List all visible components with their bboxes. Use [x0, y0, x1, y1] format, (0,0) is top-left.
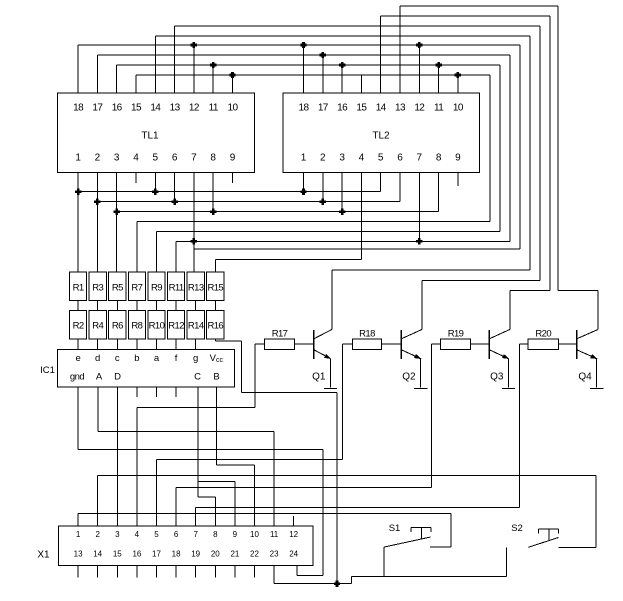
- TL2 pin 17 number: [318, 103, 329, 114]
- wire R5-R6: [116, 301, 118, 311]
- svg-text:R18: R18: [359, 329, 375, 340]
- svg-text:21: 21: [230, 550, 239, 559]
- switch S1: [384, 523, 451, 547]
- wire Q2 collector to bus540: [422, 280, 540, 282]
- stub TL1 pin4: [135, 173, 137, 183]
- TL1 pin 12 number: [189, 103, 200, 114]
- svg-text:c: c: [115, 353, 120, 364]
- svg-text:9: 9: [233, 530, 238, 539]
- svg-text:3: 3: [115, 530, 120, 539]
- wire R2 to IC1: [77, 339, 79, 350]
- svg-text:11: 11: [434, 103, 444, 114]
- net line2 wire: [97, 201, 400, 203]
- TL2 pin 13 number: [395, 103, 406, 114]
- svg-text:R4: R4: [92, 321, 103, 332]
- IC1 pin c label: [115, 353, 120, 364]
- wire TL1 pin16: [116, 65, 118, 93]
- svg-text:R19: R19: [448, 329, 464, 340]
- wire R3-R4: [97, 301, 99, 311]
- IC1 pin d label: [95, 353, 100, 364]
- X1 pin 6 number: [174, 530, 179, 539]
- wire R8 to IC1: [136, 339, 138, 350]
- wire Q2 collector: [421, 281, 423, 330]
- junction line3 TL1-3: [114, 209, 120, 215]
- TL2 pin 16 number: [337, 103, 348, 114]
- svg-text:b: b: [134, 353, 139, 364]
- wire R17 to base: [295, 343, 314, 345]
- wire R11-R12: [175, 301, 177, 311]
- TL2 pin 18 number: [299, 103, 310, 114]
- ground Q1 emitter: [324, 388, 337, 390]
- transistor Q1: [312, 330, 332, 383]
- stub X1 pin 22: [254, 566, 256, 578]
- bus wire x558: [557, 6, 559, 290]
- IC1 pin D label: [114, 372, 121, 383]
- wire TL1 pin1 to R1: [77, 173, 79, 272]
- net line8 wire: [215, 173, 361, 272]
- TL2 pin 14 number: [376, 103, 387, 114]
- junction line2 TL2-2: [320, 199, 326, 205]
- svg-text:24: 24: [289, 550, 298, 559]
- label TL2: [372, 131, 390, 142]
- net digit2 top wire: [175, 25, 540, 27]
- TL1 pin 5 number: [153, 153, 159, 164]
- svg-text:R8: R8: [131, 321, 142, 332]
- svg-text:2: 2: [95, 153, 101, 164]
- wire TL2 pin18: [303, 45, 305, 93]
- resistor R4: [89, 311, 106, 339]
- X1 pin 17 number: [152, 550, 161, 559]
- resistor R20: [528, 329, 559, 350]
- svg-text:8: 8: [436, 153, 442, 164]
- wire R7-R8: [136, 301, 138, 311]
- X1 pin 4 number: [135, 530, 140, 539]
- IC TL2: [283, 93, 480, 173]
- svg-text:8: 8: [210, 153, 216, 164]
- svg-text:1: 1: [301, 153, 307, 164]
- wire Q3 emitter: [508, 359, 510, 388]
- X1 pin 1 number: [76, 530, 81, 539]
- wire TL2 pin16: [341, 65, 343, 93]
- svg-text:12: 12: [289, 530, 298, 539]
- svg-text:16: 16: [132, 550, 141, 559]
- junction TL2-17: [320, 52, 326, 58]
- svg-text:12: 12: [414, 103, 425, 114]
- wire TL1 pin6: [174, 173, 176, 202]
- svg-text:16: 16: [112, 103, 123, 114]
- wire X1-1 riser: [77, 514, 79, 527]
- svg-text:6: 6: [174, 530, 179, 539]
- bus wire x550: [549, 16, 551, 290]
- net digit1 top wire: [155, 35, 530, 37]
- svg-text:R17: R17: [272, 329, 288, 340]
- wire X1 pin23 to rail: [273, 566, 275, 584]
- svg-text:R12: R12: [168, 321, 184, 332]
- TL2 pin 5 number: [378, 153, 384, 164]
- ground Q4 emitter: [590, 388, 603, 390]
- junction line1 TL1-5: [152, 189, 158, 195]
- svg-text:13: 13: [395, 103, 406, 114]
- svg-text:d: d: [95, 353, 100, 364]
- TL2 pin 15 number: [356, 103, 367, 114]
- junction TL1-11: [210, 62, 216, 68]
- X1 pin 3 number: [115, 530, 120, 539]
- wire R12 to IC1: [175, 339, 177, 350]
- svg-text:20: 20: [211, 550, 220, 559]
- svg-text:g: g: [193, 353, 198, 364]
- svg-text:R20: R20: [535, 329, 551, 340]
- X1 pin 20 number: [211, 550, 220, 559]
- svg-text:C: C: [194, 372, 201, 383]
- wire Q2 emitter: [420, 359, 422, 388]
- wire R18 drop: [342, 344, 344, 459]
- X1 pin 2 number: [95, 530, 100, 539]
- bus wire x490: [489, 75, 491, 221]
- wire Q1 collector: [331, 270, 333, 330]
- X1 pin 21 number: [230, 550, 239, 559]
- junction line1 TL2-1: [300, 189, 306, 195]
- bus wire x500: [499, 65, 501, 232]
- wire TL2 pin10: [457, 75, 459, 93]
- svg-text:R2: R2: [73, 321, 84, 332]
- net seg15-10 top wire: [136, 74, 490, 76]
- net line7 wire: [194, 248, 520, 250]
- TL1 pin 3 number: [114, 153, 120, 164]
- junction TL2-12: [416, 42, 422, 48]
- svg-text:10: 10: [250, 530, 259, 539]
- stub X1 pin 20: [214, 566, 216, 578]
- wire Q1 collector to bus530: [332, 269, 530, 271]
- wire S2 left to rail: [505, 547, 507, 576]
- wire TL2 pin12: [418, 45, 420, 93]
- X1 pin 15 number: [113, 550, 122, 559]
- svg-text:4: 4: [133, 153, 139, 164]
- wire X1-4 to R17 drop: [137, 406, 255, 408]
- svg-text:8: 8: [213, 530, 218, 539]
- TL2 pin 9 number: [455, 153, 461, 164]
- TL2 pin 10 number: [453, 103, 464, 114]
- junction line3 TL2-3: [339, 209, 345, 215]
- resistor R18: [353, 329, 382, 350]
- svg-text:7: 7: [417, 153, 423, 164]
- svg-text:9: 9: [455, 153, 461, 164]
- IC1 pin A label: [96, 372, 103, 383]
- wire S2 riser: [595, 476, 597, 548]
- wire Q4 collector: [597, 290, 599, 329]
- junction line2 TL1-6: [171, 199, 177, 205]
- IC IC1: [58, 350, 235, 388]
- transistor Q4: [577, 330, 598, 383]
- wire IC1 A to X1-11: [98, 387, 274, 526]
- svg-text:Q4: Q4: [578, 371, 592, 382]
- net X1-2 R19 S2 wire: [98, 475, 596, 477]
- wire R20 left: [519, 343, 528, 345]
- stub X1 pin 15: [116, 566, 118, 578]
- svg-text:R1: R1: [73, 283, 84, 294]
- wire R14 to IC1: [195, 339, 197, 350]
- IC TL1: [58, 93, 255, 173]
- X1 pin 11 number: [270, 530, 279, 539]
- resistor R6: [109, 311, 126, 339]
- junction line6 TL2-7: [416, 238, 422, 244]
- wire TL2 pin11: [438, 65, 440, 93]
- resistor R16: [207, 311, 224, 339]
- svg-text:a: a: [154, 353, 160, 364]
- bus wire x540: [539, 26, 541, 281]
- resistor R9: [148, 272, 165, 301]
- svg-text:23: 23: [270, 550, 279, 559]
- svg-text:5: 5: [154, 530, 159, 539]
- svg-text:A: A: [96, 372, 103, 383]
- resistor R11: [168, 272, 185, 301]
- stub X1 pin 18: [175, 566, 177, 578]
- IC1 pin gnd label: [70, 372, 85, 383]
- svg-text:IC1: IC1: [40, 365, 55, 376]
- svg-text:R15: R15: [207, 283, 223, 294]
- IC1 pin f label: [175, 353, 178, 364]
- svg-text:12: 12: [189, 103, 200, 114]
- junction TL2-16: [339, 62, 345, 68]
- wire R19 left: [432, 343, 441, 345]
- wire X1-4 riser: [136, 407, 138, 526]
- junction line3 TL1-8: [210, 209, 216, 215]
- wire IC1 C: [198, 387, 216, 497]
- svg-text:2: 2: [95, 530, 100, 539]
- stub X1 pin 17: [156, 566, 158, 578]
- wire X1-8 riser: [214, 497, 216, 526]
- IC1 pin e label: [75, 353, 80, 364]
- IC1 pin g label: [193, 353, 198, 364]
- TL1 pin 8 number: [210, 153, 216, 164]
- stub X1 pin 21: [234, 566, 236, 578]
- wire X1-7 to R20: [196, 506, 520, 508]
- svg-text:7: 7: [193, 530, 198, 539]
- X1 pin 13 number: [74, 550, 83, 559]
- svg-text:6: 6: [397, 153, 403, 164]
- TL2 pin 4 number: [359, 153, 365, 164]
- svg-text:1: 1: [75, 153, 81, 164]
- wire TL2 pin13: [399, 6, 401, 93]
- wire X1-7 riser: [195, 507, 197, 526]
- wire Q4 collector to bus558: [558, 289, 598, 291]
- label TL1: [141, 131, 159, 142]
- TL1 pin 1 number: [75, 153, 81, 164]
- label X1: [37, 550, 50, 561]
- wire IC1 gnd: [78, 387, 323, 576]
- wire TL1 pin13: [174, 26, 176, 93]
- TL1 pin 10 number: [228, 103, 239, 114]
- svg-text:22: 22: [250, 550, 259, 559]
- stub IC1 unused pin: [136, 387, 138, 397]
- X1 pin 7 number: [193, 530, 198, 539]
- X1 pin 18 number: [172, 550, 181, 559]
- stub X1-12: [293, 516, 295, 526]
- wire X1-2 riser: [97, 476, 99, 527]
- svg-text:R9: R9: [151, 283, 162, 294]
- TL1 pin 13 number: [170, 103, 181, 114]
- wire TL1 pin7 to R13: [193, 173, 195, 272]
- svg-text:4: 4: [359, 153, 365, 164]
- wire TL1 pin10: [232, 75, 234, 93]
- TL1 pin 6 number: [172, 153, 178, 164]
- wire TL2 pin8: [438, 173, 440, 212]
- wire TL1 pin2 to R3: [96, 173, 98, 272]
- label IC1: [40, 365, 55, 376]
- wire IC1 D to X1-3: [116, 387, 118, 526]
- net bottom rail: [274, 577, 506, 584]
- wire R18 to base: [381, 343, 401, 345]
- resistor R14: [187, 311, 204, 339]
- X1 pin 24 number: [289, 550, 298, 559]
- IC1 pin a label: [154, 353, 160, 364]
- wire TL1 pin14: [154, 36, 156, 93]
- X1 pin 22 number: [250, 550, 259, 559]
- TL1 pin 7 number: [191, 153, 197, 164]
- X1 pin 10 number: [250, 530, 259, 539]
- svg-text:16: 16: [337, 103, 348, 114]
- svg-text:7: 7: [191, 153, 197, 164]
- svg-text:18: 18: [73, 103, 84, 114]
- wire Q1 emitter: [330, 359, 332, 388]
- junction line6 TL1-7: [191, 238, 197, 244]
- IC1 pin b label: [134, 353, 139, 364]
- wire R1-R2: [77, 301, 79, 311]
- svg-text:17: 17: [152, 550, 161, 559]
- wire TL1 pin12: [193, 45, 195, 93]
- wire R20 to base: [559, 343, 577, 345]
- wire TL1 pin5: [154, 173, 156, 192]
- TL2 pin 2 number: [320, 153, 326, 164]
- TL1 pin 15 number: [131, 103, 142, 114]
- wire R20 drop: [518, 344, 520, 507]
- wire TL2 pin5: [380, 173, 382, 192]
- stub X1 pin 16: [136, 566, 138, 578]
- resistor R17: [265, 329, 295, 350]
- wire IC1 B to X1-10: [216, 387, 254, 526]
- svg-text:D: D: [114, 372, 121, 383]
- resistor R1: [70, 272, 87, 301]
- TL1 pin 4 number: [133, 153, 139, 164]
- TL1 pin 18 number: [73, 103, 84, 114]
- svg-text:18: 18: [299, 103, 310, 114]
- X1 pin 5 number: [154, 530, 159, 539]
- svg-text:S1: S1: [389, 523, 401, 534]
- svg-text:14: 14: [376, 103, 387, 114]
- stub X1 pin 13: [77, 566, 79, 578]
- TL1 pin 11 number: [209, 103, 219, 114]
- TL1 pin 14 number: [150, 103, 161, 114]
- IC1 pin B label: [213, 372, 219, 383]
- resistor R19: [441, 329, 471, 350]
- wire Q3 collector: [509, 290, 511, 329]
- svg-text:R5: R5: [112, 283, 123, 294]
- svg-text:10: 10: [228, 103, 239, 114]
- connector X1: [58, 526, 313, 566]
- svg-text:Q1: Q1: [312, 371, 326, 382]
- svg-text:1: 1: [76, 530, 81, 539]
- stub IC1 unused pin: [175, 387, 177, 397]
- svg-text:13: 13: [74, 550, 83, 559]
- stub TL1 pin9: [232, 173, 234, 183]
- stub IC1 unused pin: [156, 387, 158, 397]
- svg-text:3: 3: [339, 153, 345, 164]
- net seg17 top wire: [97, 54, 510, 56]
- svg-text:f: f: [175, 353, 178, 364]
- X1 pin 14 number: [93, 550, 102, 559]
- TL2 pin 11 number: [434, 103, 444, 114]
- svg-text:3: 3: [114, 153, 120, 164]
- net digit4 top wire: [400, 5, 558, 7]
- svg-text:TL1: TL1: [141, 131, 159, 142]
- svg-text:15: 15: [356, 103, 367, 114]
- wire R18 left: [343, 343, 353, 345]
- svg-text:e: e: [75, 353, 80, 364]
- svg-text:19: 19: [191, 550, 200, 559]
- wire TL1 pin17: [96, 55, 98, 93]
- resistor R15: [207, 272, 224, 301]
- wire TL1 pin3 to R5: [116, 173, 118, 272]
- wire TL2 pin3: [341, 173, 343, 212]
- svg-text:5: 5: [378, 153, 384, 164]
- wire R6 to IC1: [116, 339, 118, 350]
- TL1 pin 16 number: [112, 103, 123, 114]
- net line5 wire: [157, 232, 501, 273]
- net seg16-11 top wire: [117, 64, 500, 66]
- svg-text:R3: R3: [92, 283, 103, 294]
- junction TL1-10: [229, 72, 235, 78]
- IC1 pin Vcc label: [210, 353, 224, 364]
- svg-text:S2: S2: [511, 523, 523, 534]
- wire X1 pin24 to gnd: [297, 566, 323, 576]
- X1 pin 19 number: [191, 550, 200, 559]
- svg-text:R11: R11: [169, 283, 184, 294]
- svg-text:gnd: gnd: [70, 372, 85, 383]
- wire R13-R14: [195, 301, 197, 311]
- svg-text:Vcc: Vcc: [210, 353, 224, 364]
- X1 pin 9 number: [233, 530, 238, 539]
- wire TL2 pin6: [399, 173, 401, 202]
- svg-text:R16: R16: [207, 321, 223, 332]
- svg-text:Q3: Q3: [490, 371, 504, 382]
- wire R17 left: [255, 343, 265, 345]
- TL2 pin 6 number: [397, 153, 403, 164]
- TL2 pin 7 number: [417, 153, 423, 164]
- wire R10 to IC1: [156, 339, 158, 350]
- wire Q4 emitter: [596, 359, 598, 388]
- wire R9-R10: [156, 301, 158, 311]
- resistor R13: [187, 272, 204, 301]
- wire R16 to Vcc rail: [215, 339, 241, 393]
- bus wire x530: [529, 36, 531, 270]
- svg-text:B: B: [213, 372, 219, 383]
- svg-text:Q2: Q2: [402, 371, 416, 382]
- net seg18-12 top wire: [78, 44, 520, 46]
- svg-text:R6: R6: [112, 321, 123, 332]
- svg-text:2: 2: [320, 153, 326, 164]
- wire X1-6 riser: [175, 487, 177, 526]
- junction TL2-11: [435, 62, 441, 68]
- wire Vcc to R18: [337, 458, 343, 460]
- wire R17 drop: [254, 344, 256, 407]
- net line4 wire: [137, 221, 490, 272]
- svg-text:14: 14: [150, 103, 161, 114]
- resistor R5: [109, 272, 126, 301]
- ground Q3 emitter: [502, 388, 515, 390]
- net line3 wire: [117, 211, 439, 213]
- TL2 pin 12 number: [414, 103, 425, 114]
- wire R4 to IC1: [97, 339, 99, 350]
- stub TL2 pin9: [457, 173, 459, 186]
